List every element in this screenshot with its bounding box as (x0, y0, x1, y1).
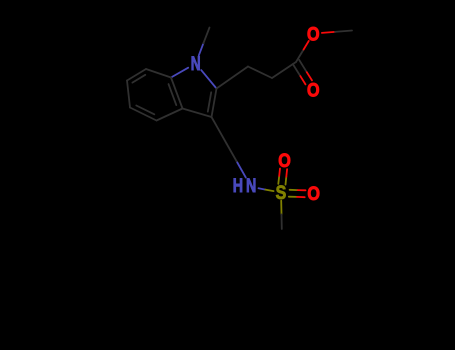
node O3 sulfonyl oxygen label (278, 150, 291, 172)
wire C3-methylene bond (212, 117, 227, 144)
wire C3-C3a bond (183, 109, 212, 118)
wire C2=C3 double bond (208, 89, 217, 118)
wire C=O carbonyl double bond (293, 60, 312, 84)
node N1 label (191, 53, 201, 75)
wire C4-C3a bond (157, 109, 183, 121)
wire S=O right double bond (289, 190, 306, 197)
wire C2-CH2 chain bond (217, 67, 249, 89)
svg-text:N: N (191, 53, 201, 75)
svg-text:O: O (307, 79, 320, 101)
svg-text:O: O (278, 150, 291, 172)
wire C6-C5 bond (127, 81, 130, 108)
svg-text:O: O (307, 23, 320, 45)
node O2 carbonyl oxygen label (307, 79, 320, 101)
wire CH2-carbonyl bond (272, 62, 296, 78)
wire C7=C6 double bond (127, 69, 146, 83)
wire C5=C4 double bond (130, 106, 157, 121)
wire S=O top double bond (278, 169, 287, 185)
wire methylene-NH bond (227, 144, 246, 178)
node O1 ester oxygen label (307, 23, 320, 45)
node S sulfur label (276, 182, 287, 204)
svg-text:S: S (276, 182, 287, 204)
wire C7a-C7 bond (146, 69, 171, 78)
wire N1-C7a bond (full blue) (171, 68, 188, 78)
svg-text:O: O (307, 183, 320, 205)
wire N1-methyl bond (199, 28, 210, 56)
wire N1-C2 bond (full blue) (201, 70, 216, 88)
wire CH2-CH2 chain bond (248, 67, 272, 79)
wire S-methyl bond (280, 201, 283, 229)
wire carbonyl-O ester bond (296, 41, 309, 62)
node NH sulfonamide label (233, 175, 260, 196)
svg-text:HN: HN (233, 175, 260, 196)
node O4 sulfonyl oxygen label (307, 183, 320, 205)
wire C3a=C7a double bond (169, 78, 183, 109)
wire NH-S bond (259, 188, 274, 191)
wire O-methyl ester bond (322, 31, 352, 33)
